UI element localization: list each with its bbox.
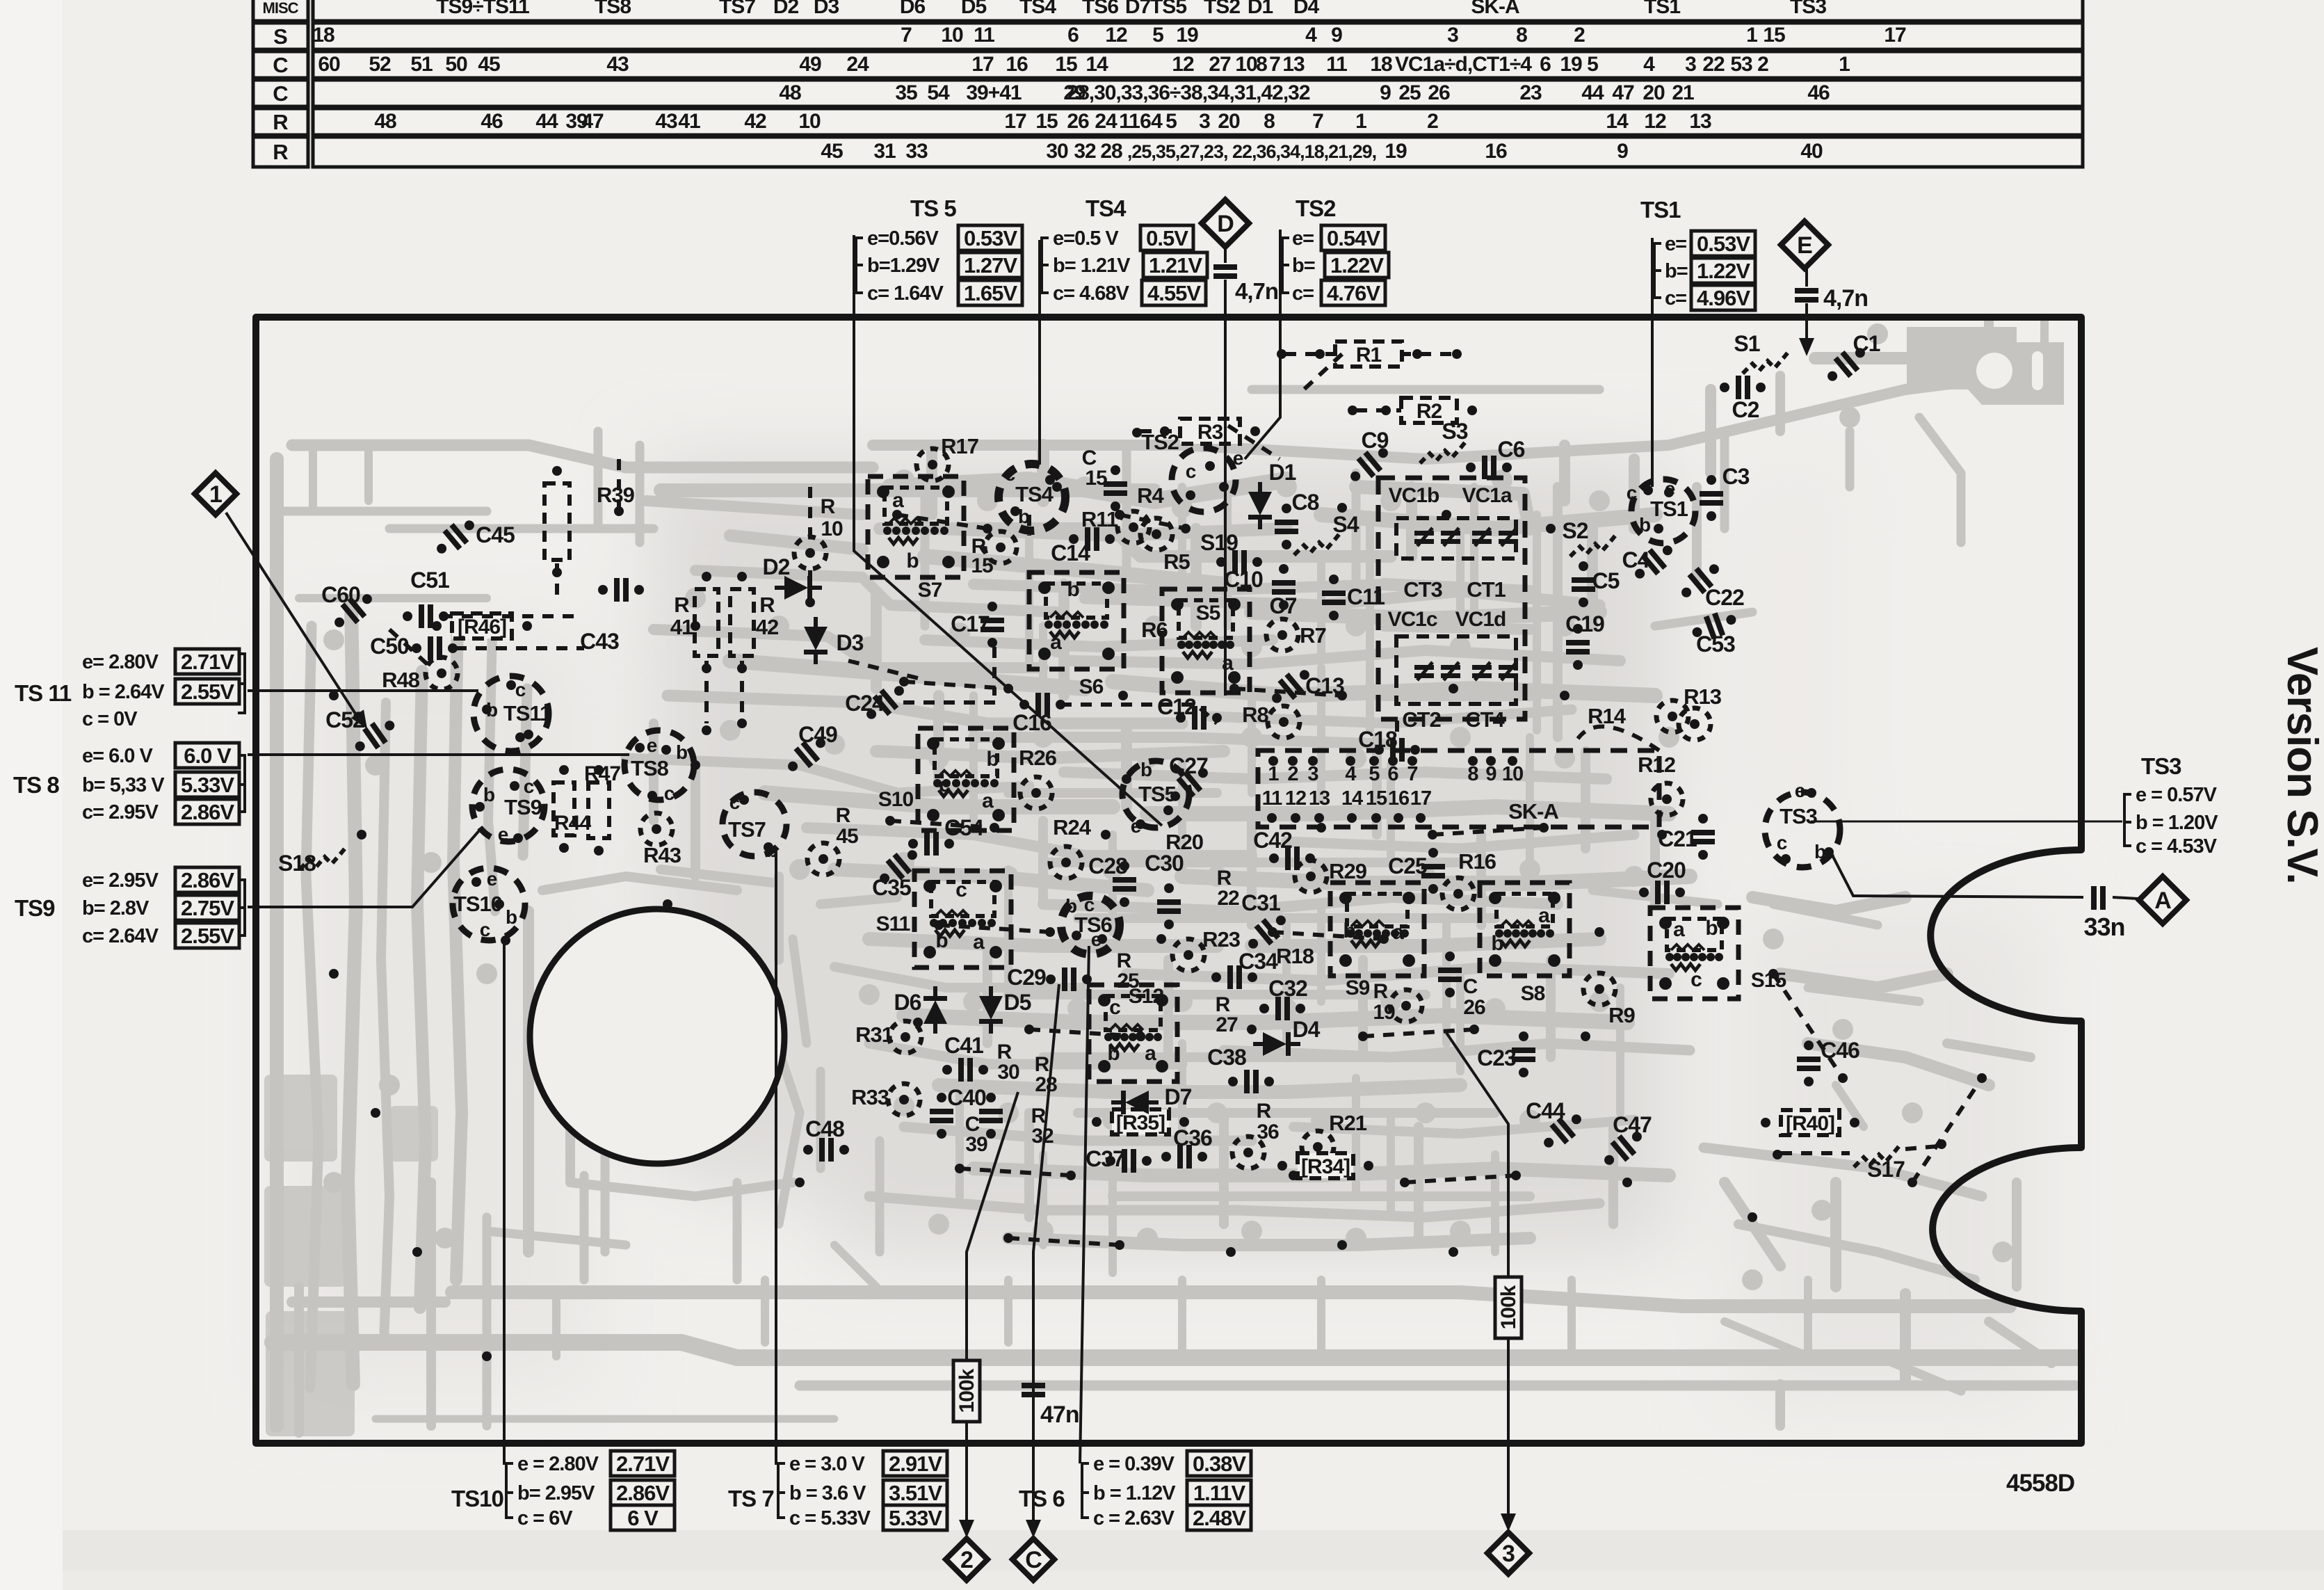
svg-text:100k: 100k	[955, 1368, 978, 1413]
capacitor C53	[1688, 607, 1740, 645]
svg-text:b= 2.95V: b= 2.95V	[517, 1482, 595, 1504]
svg-text:C2: C2	[1732, 397, 1759, 422]
capacitor C3	[1700, 491, 1723, 506]
svg-text:1.27V: 1.27V	[964, 253, 1017, 278]
svg-text:4.76V: 4.76V	[1327, 281, 1380, 305]
coil S7	[868, 476, 964, 577]
svg-text:C6: C6	[1498, 437, 1525, 462]
svg-text:19: 19	[1373, 1001, 1395, 1024]
resistor R44	[554, 782, 574, 835]
capacitor C31	[1242, 908, 1292, 956]
svg-text:TS8: TS8	[595, 0, 631, 18]
svg-text:C: C	[1025, 1547, 1042, 1573]
svg-text:c=: c=	[1665, 287, 1686, 310]
svg-text:0.54V: 0.54V	[1327, 226, 1380, 250]
svg-text:17: 17	[971, 53, 994, 76]
resistor R24	[1050, 846, 1082, 878]
svg-text:S6: S6	[1079, 675, 1104, 698]
resistor R21	[1302, 1131, 1334, 1163]
svg-text:b = 1.12V: b = 1.12V	[1093, 1482, 1176, 1504]
capacitor C27	[1164, 761, 1214, 808]
coil S4	[1294, 531, 1341, 555]
svg-text:D4: D4	[1293, 0, 1320, 18]
svg-text:R43: R43	[643, 843, 681, 867]
svg-text:TS1: TS1	[1640, 197, 1681, 223]
svg-text:b=: b=	[1292, 255, 1315, 277]
diode D6	[923, 986, 947, 1034]
svg-text:TS 7: TS 7	[728, 1486, 774, 1511]
resistor R7	[1266, 619, 1298, 651]
capacitor C41	[942, 1058, 988, 1082]
svg-text:C8: C8	[1292, 490, 1319, 515]
svg-text:R9: R9	[1608, 1003, 1635, 1027]
svg-text:48: 48	[779, 81, 801, 104]
capacitor C2	[1720, 376, 1766, 399]
svg-text:R: R	[759, 593, 775, 617]
svg-text:R6: R6	[1141, 618, 1168, 642]
svg-text:R2: R2	[1417, 400, 1442, 423]
svg-text:S15: S15	[1751, 969, 1786, 992]
svg-text:b: b	[1491, 932, 1503, 955]
svg-text:13: 13	[1282, 53, 1305, 76]
node C	[1012, 1539, 1054, 1580]
svg-text:TS8: TS8	[631, 756, 669, 780]
svg-text:12: 12	[1105, 24, 1127, 47]
capacitor C38	[1228, 1070, 1274, 1093]
svg-text:33n: 33n	[2083, 913, 2124, 941]
svg-text:A: A	[2154, 888, 2171, 914]
svg-text:C3: C3	[1722, 464, 1750, 489]
svg-text:E: E	[1797, 232, 1812, 259]
svg-text:C9: C9	[1362, 428, 1389, 453]
capacitor C43	[598, 578, 644, 602]
svg-text:C19: C19	[1565, 611, 1604, 636]
svg-text:3.51V: 3.51V	[889, 1481, 942, 1505]
svg-text:4: 4	[1643, 53, 1655, 76]
svg-text:17: 17	[1004, 110, 1026, 133]
svg-text:C22: C22	[1705, 585, 1744, 610]
svg-text:TS11: TS11	[503, 701, 551, 725]
svg-text:D6: D6	[900, 0, 926, 18]
svg-text:4,7n: 4,7n	[1823, 285, 1868, 312]
resistor R34	[1298, 1153, 1353, 1178]
svg-text:TS6: TS6	[1082, 0, 1118, 18]
resistor R12	[1651, 783, 1683, 815]
svg-text:28: 28	[1100, 140, 1122, 163]
svg-text:20: 20	[1218, 110, 1240, 133]
svg-text:e: e	[498, 824, 508, 845]
svg-text:C20: C20	[1647, 858, 1686, 883]
capacitor C36	[1161, 1145, 1207, 1169]
svg-text:2.55V: 2.55V	[181, 924, 234, 948]
transistor TS2	[1172, 448, 1236, 512]
svg-text:4,7n: 4,7n	[1235, 278, 1278, 304]
svg-text:15: 15	[1763, 24, 1785, 47]
wire TS6 lead	[1080, 946, 1089, 1463]
svg-text:VC1d: VC1d	[1455, 608, 1506, 631]
svg-text:[R35]: [R35]	[1116, 1111, 1165, 1134]
svg-text:6: 6	[1387, 763, 1398, 785]
svg-text:6: 6	[1067, 24, 1079, 47]
svg-text:R13: R13	[1684, 684, 1722, 709]
capacitor C6	[1466, 456, 1512, 479]
capacitor 4,7n at D	[1213, 264, 1237, 279]
svg-text:b=1.29V: b=1.29V	[867, 255, 940, 277]
capacitor C29	[1046, 967, 1092, 991]
svg-text:e= 2.80V: e= 2.80V	[82, 651, 159, 673]
svg-text:TS2: TS2	[1204, 0, 1240, 18]
capacitor C30	[1157, 899, 1181, 914]
svg-text:46: 46	[1807, 81, 1830, 104]
svg-text:e = 0.57V: e = 0.57V	[2136, 784, 2218, 806]
svg-text:C32: C32	[1268, 976, 1307, 1001]
svg-text:R8: R8	[1242, 702, 1268, 727]
svg-text:C10: C10	[1224, 567, 1263, 592]
svg-text:b = 1.20V: b = 1.20V	[2136, 812, 2218, 834]
coil S9	[1330, 883, 1424, 976]
svg-text:5: 5	[1165, 110, 1177, 133]
svg-text:C1: C1	[1853, 331, 1880, 356]
svg-text:7: 7	[1269, 53, 1280, 76]
svg-text:6.0 V: 6.0 V	[184, 744, 232, 768]
svg-text:a: a	[1392, 921, 1404, 944]
resistor R33	[888, 1084, 920, 1116]
coil S3	[1420, 440, 1467, 463]
svg-text:R: R	[674, 593, 689, 617]
svg-text:,25,35,27,23, 22,36,34,18,21,2: ,25,35,27,23, 22,36,34,18,21,29,	[1127, 141, 1376, 162]
svg-text:2.86V: 2.86V	[181, 800, 234, 824]
svg-text:9: 9	[1617, 140, 1628, 163]
svg-text:45: 45	[478, 53, 500, 76]
transistor TS6	[1061, 896, 1120, 954]
svg-text:R1: R1	[1356, 344, 1382, 367]
capacitor C37	[1106, 1149, 1152, 1173]
svg-text:b: b	[906, 549, 919, 572]
capacitor C17	[981, 618, 1004, 632]
svg-text:C: C	[273, 81, 288, 106]
capacitor 33n	[2091, 886, 2106, 910]
svg-text:R: R	[821, 495, 836, 518]
capacitor C23	[1512, 1047, 1535, 1062]
svg-text:a: a	[1222, 652, 1234, 675]
svg-text:b = 3.6 V: b = 3.6 V	[789, 1482, 866, 1504]
svg-text:TS 6: TS 6	[1019, 1486, 1065, 1511]
svg-text:D2: D2	[763, 554, 790, 579]
svg-text:3: 3	[1502, 1541, 1515, 1567]
transistor TS4	[999, 464, 1065, 531]
capacitor C40	[930, 1109, 953, 1123]
coil S5	[1162, 589, 1250, 693]
svg-text:b: b	[986, 748, 999, 771]
resistor R10	[794, 537, 826, 569]
coil S18	[300, 846, 347, 869]
svg-text:e=: e=	[1292, 227, 1314, 250]
svg-text:c: c	[1627, 482, 1637, 504]
svg-text:c: c	[515, 679, 526, 700]
svg-text:S3: S3	[1442, 419, 1467, 444]
svg-text:e: e	[1233, 447, 1243, 469]
svg-text:15: 15	[971, 554, 993, 577]
resistor R13	[1679, 708, 1711, 740]
svg-text:8: 8	[1264, 110, 1275, 133]
svg-text:5.33V: 5.33V	[889, 1506, 942, 1530]
wire TS11 b lead	[248, 689, 478, 692]
resistor R19	[1390, 990, 1422, 1022]
svg-text:c= 2.95V: c= 2.95V	[82, 801, 159, 824]
svg-text:4: 4	[1151, 110, 1163, 133]
wire nodeC lead	[1033, 984, 1059, 1530]
svg-text:R: R	[273, 110, 288, 134]
svg-text:b: b	[1067, 578, 1079, 601]
capacitor C14	[1069, 527, 1115, 551]
wire D lead	[1224, 246, 1227, 263]
svg-text:S10: S10	[878, 788, 914, 811]
svg-text:R4: R4	[1137, 483, 1164, 508]
diode D1	[1248, 482, 1272, 529]
diode D5	[979, 986, 1003, 1034]
PCB board outline	[256, 317, 2081, 1443]
svg-text:5.33V: 5.33V	[181, 773, 234, 797]
parts location index table	[253, 0, 2083, 167]
capacitor C28	[1113, 877, 1136, 892]
svg-text:c = 2.63V: c = 2.63V	[1093, 1507, 1175, 1529]
svg-text:25: 25	[1398, 81, 1421, 104]
transistor TS7	[723, 792, 786, 856]
svg-text:S4: S4	[1332, 512, 1359, 537]
svg-text:b: b	[1107, 1042, 1120, 1065]
svg-text:b: b	[1705, 917, 1718, 940]
capacitor C21	[1691, 830, 1715, 844]
svg-text:c= 4.68V: c= 4.68V	[1053, 282, 1130, 305]
svg-text:c: c	[939, 773, 950, 796]
svg-text:45: 45	[821, 140, 843, 163]
svg-text:11: 11	[974, 24, 994, 47]
svg-text:e = 0.39V: e = 0.39V	[1093, 1453, 1175, 1475]
svg-text:C60: C60	[321, 582, 360, 607]
svg-text:TS3: TS3	[1790, 0, 1826, 18]
coil S6	[1029, 572, 1124, 669]
svg-text:C23: C23	[1477, 1045, 1516, 1070]
svg-text:16: 16	[1388, 787, 1410, 810]
svg-text:16: 16	[1006, 53, 1028, 76]
svg-text:7: 7	[901, 24, 912, 47]
svg-text:b= 5,33 V: b= 5,33 V	[82, 774, 165, 796]
svg-text:C46: C46	[1821, 1038, 1859, 1063]
svg-text:TS4: TS4	[1015, 482, 1054, 506]
svg-text:15: 15	[1366, 787, 1387, 810]
svg-text:R: R	[1257, 1100, 1272, 1123]
svg-text:44: 44	[1581, 81, 1604, 104]
svg-text:TS4: TS4	[1086, 195, 1127, 221]
svg-text:C50: C50	[370, 634, 409, 659]
svg-text:27: 27	[1209, 53, 1231, 76]
capacitor C48	[803, 1138, 849, 1162]
svg-text:1.65V: 1.65V	[964, 281, 1017, 305]
svg-text:c = 0V: c = 0V	[82, 708, 138, 730]
svg-text:11: 11	[1262, 787, 1283, 810]
svg-text:53: 53	[1730, 53, 1752, 76]
capacitor C52	[349, 713, 401, 759]
svg-text:C47: C47	[1613, 1112, 1652, 1137]
svg-text:D1: D1	[1248, 0, 1273, 18]
capacitor C60	[328, 587, 378, 634]
svg-text:2: 2	[1287, 763, 1298, 785]
svg-text:3: 3	[1685, 53, 1696, 76]
svg-text:TS1: TS1	[1644, 0, 1680, 18]
svg-text:e=0.56V: e=0.56V	[867, 227, 939, 250]
svg-text:a: a	[892, 489, 904, 512]
resistor R35	[1112, 1109, 1169, 1134]
svg-text:50: 50	[445, 53, 467, 76]
svg-text:0.53V: 0.53V	[964, 226, 1017, 250]
svg-text:C: C	[1463, 975, 1478, 998]
capacitor C4	[1629, 538, 1679, 586]
svg-text:C7: C7	[1270, 593, 1297, 618]
svg-text:b: b	[483, 784, 494, 805]
svg-text:C40: C40	[947, 1085, 986, 1110]
svg-text:48: 48	[374, 110, 396, 133]
svg-text:C27: C27	[1169, 753, 1208, 778]
svg-text:1: 1	[209, 481, 222, 508]
capacitor C44	[1538, 1107, 1588, 1155]
svg-text:C49: C49	[798, 722, 837, 747]
svg-text:R33: R33	[851, 1085, 889, 1109]
svg-text:5: 5	[1152, 24, 1163, 47]
svg-text:26: 26	[1463, 996, 1485, 1019]
svg-text:7: 7	[1312, 110, 1323, 133]
svg-text:e=: e=	[1665, 233, 1686, 255]
svg-text:c: c	[1084, 894, 1095, 915]
resistor R45	[807, 843, 839, 875]
svg-text:S2: S2	[1562, 518, 1588, 543]
svg-text:D5: D5	[961, 0, 987, 18]
svg-text:2.86V: 2.86V	[616, 1481, 670, 1505]
svg-text:47: 47	[1612, 81, 1634, 104]
svg-text:27: 27	[1216, 1013, 1238, 1036]
svg-text:21: 21	[1672, 81, 1694, 104]
capacitor C32	[1259, 997, 1305, 1020]
svg-text:D7: D7	[1165, 1084, 1192, 1109]
svg-text:2.91V: 2.91V	[889, 1452, 942, 1476]
wire TS1 callout lead	[1651, 238, 1654, 487]
connector SK-A	[1258, 750, 1659, 827]
coil S15	[1650, 908, 1738, 999]
svg-text:26: 26	[1067, 110, 1089, 133]
svg-text:8: 8	[1467, 763, 1478, 785]
svg-text:TS3: TS3	[2141, 753, 2181, 779]
svg-text:3: 3	[1447, 24, 1458, 47]
transistor TS1	[1631, 479, 1695, 543]
svg-text:R48: R48	[382, 668, 420, 692]
capacitor C1	[1821, 341, 1871, 388]
svg-text:47n: 47n	[1040, 1402, 1079, 1428]
resistor R23	[1172, 939, 1204, 971]
capacitor VC1 CT block	[1378, 478, 1525, 719]
svg-text:e= 2.95V: e= 2.95V	[82, 869, 159, 892]
capacitor C25	[1421, 864, 1445, 878]
resistor R41	[695, 589, 718, 656]
resistor R9	[1583, 973, 1615, 1005]
capacitor C45	[430, 513, 481, 561]
capacitor C24	[860, 679, 910, 726]
transistor TS10	[453, 868, 525, 940]
svg-text:c: c	[729, 792, 740, 813]
svg-text:20: 20	[1643, 81, 1665, 104]
svg-text:4.55V: 4.55V	[1147, 281, 1201, 305]
svg-text:15: 15	[1085, 467, 1107, 490]
svg-text:2.48V: 2.48V	[1193, 1506, 1246, 1530]
svg-text:2: 2	[1574, 24, 1585, 47]
svg-text:b: b	[935, 929, 948, 952]
svg-text:R18: R18	[1276, 944, 1314, 968]
resistor 100k (left)	[953, 1360, 980, 1422]
resistor R8	[1268, 706, 1300, 738]
wire TS5 callout lead	[854, 235, 1162, 826]
svg-text:41: 41	[678, 110, 700, 133]
wire TS8 e lead	[248, 753, 629, 756]
svg-text:C37: C37	[1086, 1146, 1124, 1171]
svg-text:51: 51	[410, 53, 433, 76]
svg-text:35: 35	[895, 81, 917, 104]
svg-text:b: b	[1814, 841, 1825, 862]
transistor TS9	[472, 769, 544, 842]
svg-text:C5: C5	[1592, 568, 1620, 593]
svg-text:D4: D4	[1293, 1017, 1321, 1042]
svg-text:CT1: CT1	[1467, 577, 1506, 602]
svg-text:C43: C43	[580, 629, 619, 654]
capacitor C9	[1344, 441, 1394, 488]
svg-text:C35: C35	[872, 875, 911, 900]
resistor R46	[452, 613, 512, 639]
svg-text:D7: D7	[1125, 0, 1151, 18]
svg-text:C28: C28	[1088, 853, 1127, 878]
diode D3	[804, 617, 828, 664]
svg-text:10: 10	[798, 110, 821, 133]
svg-text:c: c	[1005, 463, 1015, 485]
svg-text:D6: D6	[894, 990, 921, 1015]
svg-text:C45: C45	[476, 522, 515, 547]
wire TS3 b lead	[1811, 821, 2122, 823]
svg-text:R: R	[836, 804, 851, 827]
svg-text:S11: S11	[876, 913, 910, 935]
svg-text:0.5V: 0.5V	[1146, 226, 1188, 250]
capacitor C5	[1572, 577, 1595, 592]
svg-text:R29: R29	[1329, 859, 1367, 883]
capacitor C26	[1438, 967, 1462, 982]
capacitor C7	[1272, 580, 1296, 595]
svg-text:C17: C17	[951, 611, 990, 636]
wire E lead	[1805, 268, 1808, 287]
svg-text:R: R	[1373, 980, 1389, 1003]
svg-text:1.11V: 1.11V	[1193, 1481, 1246, 1505]
svg-text:c: c	[955, 878, 967, 901]
svg-text:2.86V: 2.86V	[181, 868, 234, 892]
transistor TS3	[1765, 792, 1840, 867]
svg-text:15: 15	[1035, 110, 1058, 133]
capacitor C34	[1211, 965, 1257, 989]
svg-text:15: 15	[1055, 53, 1077, 76]
svg-text:1: 1	[1268, 763, 1279, 785]
resistor R1	[1335, 342, 1402, 367]
svg-text:C51: C51	[410, 568, 449, 593]
capacitor C22	[1675, 557, 1725, 604]
svg-text:31: 31	[873, 140, 896, 163]
svg-text:c: c	[1690, 968, 1702, 991]
svg-text:c= 2.64V: c= 2.64V	[82, 925, 159, 947]
svg-text:R24: R24	[1053, 815, 1092, 840]
capacitor C46	[1797, 1057, 1821, 1071]
svg-text:36: 36	[1257, 1121, 1279, 1143]
